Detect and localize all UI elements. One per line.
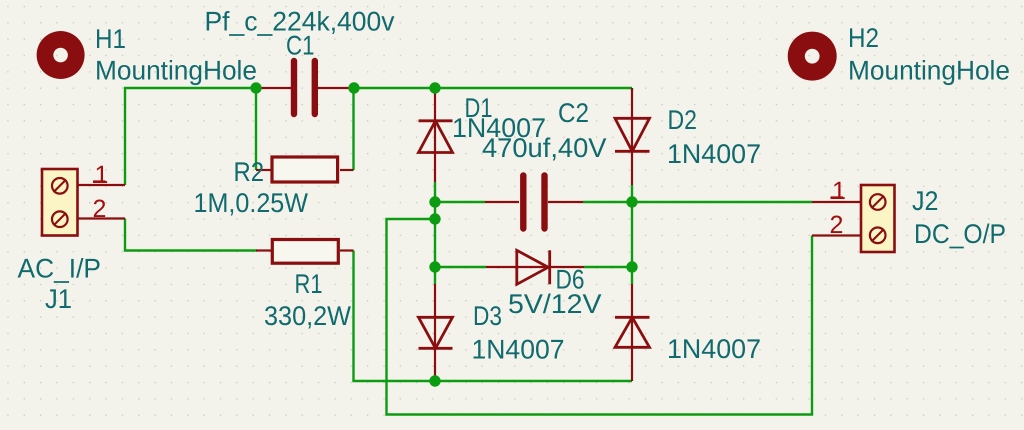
svg-text:MountingHole: MountingHole bbox=[848, 56, 1010, 86]
svg-text:MountingHole: MountingHole bbox=[95, 56, 257, 86]
svg-text:R1: R1 bbox=[295, 269, 323, 299]
svg-text:1N4007: 1N4007 bbox=[667, 139, 761, 169]
svg-text:H2: H2 bbox=[848, 23, 879, 53]
svg-text:470uf,40V: 470uf,40V bbox=[482, 133, 607, 163]
svg-text:1N4007: 1N4007 bbox=[472, 335, 565, 365]
svg-text:1: 1 bbox=[832, 177, 846, 205]
svg-text:J1: J1 bbox=[45, 284, 72, 314]
svg-text:C2: C2 bbox=[558, 98, 589, 128]
svg-text:C1: C1 bbox=[286, 31, 315, 61]
svg-text:D3: D3 bbox=[473, 301, 502, 331]
svg-text:J2: J2 bbox=[912, 186, 939, 216]
svg-text:R2: R2 bbox=[234, 157, 265, 187]
svg-text:2: 2 bbox=[93, 195, 107, 223]
svg-text:1N4007: 1N4007 bbox=[667, 334, 761, 364]
svg-text:H1: H1 bbox=[95, 24, 126, 54]
svg-text:D2: D2 bbox=[668, 105, 698, 135]
svg-text:2: 2 bbox=[830, 211, 844, 239]
svg-text:330,2W: 330,2W bbox=[264, 301, 351, 331]
svg-text:1: 1 bbox=[95, 161, 109, 189]
svg-text:5V/12V: 5V/12V bbox=[508, 289, 602, 319]
svg-text:DC_O/P: DC_O/P bbox=[914, 219, 1006, 249]
svg-text:1M,0.25W: 1M,0.25W bbox=[194, 188, 309, 218]
svg-text:AC_I/P: AC_I/P bbox=[18, 254, 102, 284]
